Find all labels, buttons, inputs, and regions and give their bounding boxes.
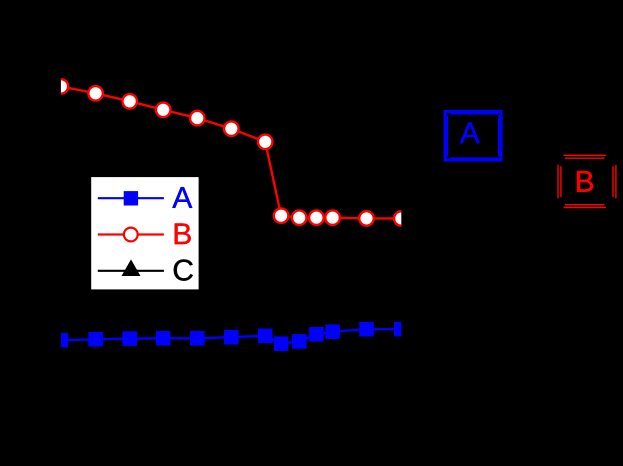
legend row B bbox=[98, 223, 191, 244]
annotation box A (blue) bbox=[445, 111, 501, 160]
wire series B red line bbox=[61, 86, 401, 218]
annotation box B (red dashed) bbox=[558, 155, 616, 207]
wire series A blue line bbox=[61, 329, 401, 344]
legend row C bbox=[98, 259, 193, 280]
series B markers (open circles) bbox=[54, 79, 409, 226]
legend box bbox=[90, 176, 199, 290]
series A markers (blue squares) bbox=[54, 322, 409, 351]
legend row A bbox=[98, 187, 192, 208]
